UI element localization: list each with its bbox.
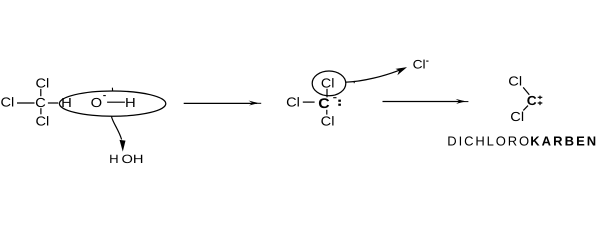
svg-text:H: H (109, 152, 119, 166)
bond C-H (48, 102, 58, 104)
charge minus of Cl- ion (426, 60, 428, 62)
lone pair dot upper (338, 100, 341, 102)
svg-text:Cl: Cl (510, 109, 524, 124)
bond C-Cl bottom (40, 108, 42, 114)
electron mark lower (plus) (538, 101, 543, 105)
svg-text:C: C (318, 95, 329, 111)
arrowhead of curved arrow to Cl- (397, 68, 406, 74)
svg-text:H: H (133, 152, 144, 166)
curved arrow to HOH (112, 117, 122, 140)
bond Cl-C left (anion) (303, 101, 315, 103)
svg-text:Cl: Cl (36, 75, 50, 90)
reaction arrow 1 stub (257, 102, 261, 104)
tick at ellipse top (111, 88, 113, 92)
ellipse around H and hydroxide (59, 91, 165, 116)
svg-text:DICHLORO: DICHLORO (447, 133, 529, 148)
bond Cl-C upper (carbene) (523, 87, 529, 94)
svg-text:H: H (125, 95, 136, 110)
svg-text:O: O (122, 152, 133, 166)
lone pair dot lower (338, 104, 341, 106)
charge minus on O (103, 95, 106, 97)
charge minus on carbanion (333, 97, 336, 99)
curved arrow from circled Cl to Cl- (346, 69, 402, 82)
svg-text:Cl: Cl (286, 94, 300, 109)
reaction arrow 2 shaft (383, 101, 465, 103)
bond C-Cl top (40, 89, 42, 96)
reaction arrow 1 shaft (184, 102, 257, 104)
bond C-Cl bottom (anion) (326, 110, 328, 115)
svg-text:Cl: Cl (508, 73, 522, 88)
svg-text:Cl: Cl (413, 58, 426, 72)
svg-text:Cl: Cl (321, 114, 335, 129)
reaction arrow 1 head (249, 101, 259, 106)
electron mark upper (plus) (538, 96, 543, 100)
bond O-H (107, 101, 125, 103)
reaction arrow 2 head (456, 99, 466, 104)
svg-text:O: O (91, 95, 103, 110)
bond C-Cl lower (carbene) (523, 106, 528, 111)
svg-text:Cl: Cl (1, 95, 15, 110)
svg-text:Cl: Cl (321, 75, 335, 90)
circle around leaving Cl (312, 71, 346, 96)
bond Cl-C top (anion) (326, 89, 328, 98)
bond Cl-C left (17, 102, 35, 104)
svg-text:C: C (35, 95, 46, 110)
label HOH (109, 152, 143, 166)
tick on curved arrow (353, 81, 355, 83)
svg-text:C: C (527, 93, 538, 108)
arrowhead of curved arrow to HOH (120, 140, 126, 152)
reaction arrow 2 stub (464, 101, 468, 103)
svg-text:Cl: Cl (36, 113, 50, 128)
